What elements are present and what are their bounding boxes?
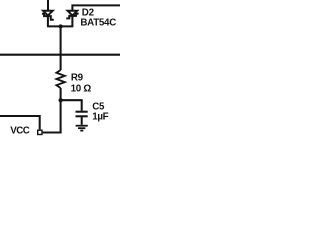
svg-text:10 Ω: 10 Ω <box>71 83 92 94</box>
svg-text:R9: R9 <box>71 72 84 83</box>
svg-text:1µF: 1µF <box>92 111 108 122</box>
svg-text:VCC: VCC <box>10 126 30 137</box>
svg-text:BAT54C: BAT54C <box>80 18 116 29</box>
